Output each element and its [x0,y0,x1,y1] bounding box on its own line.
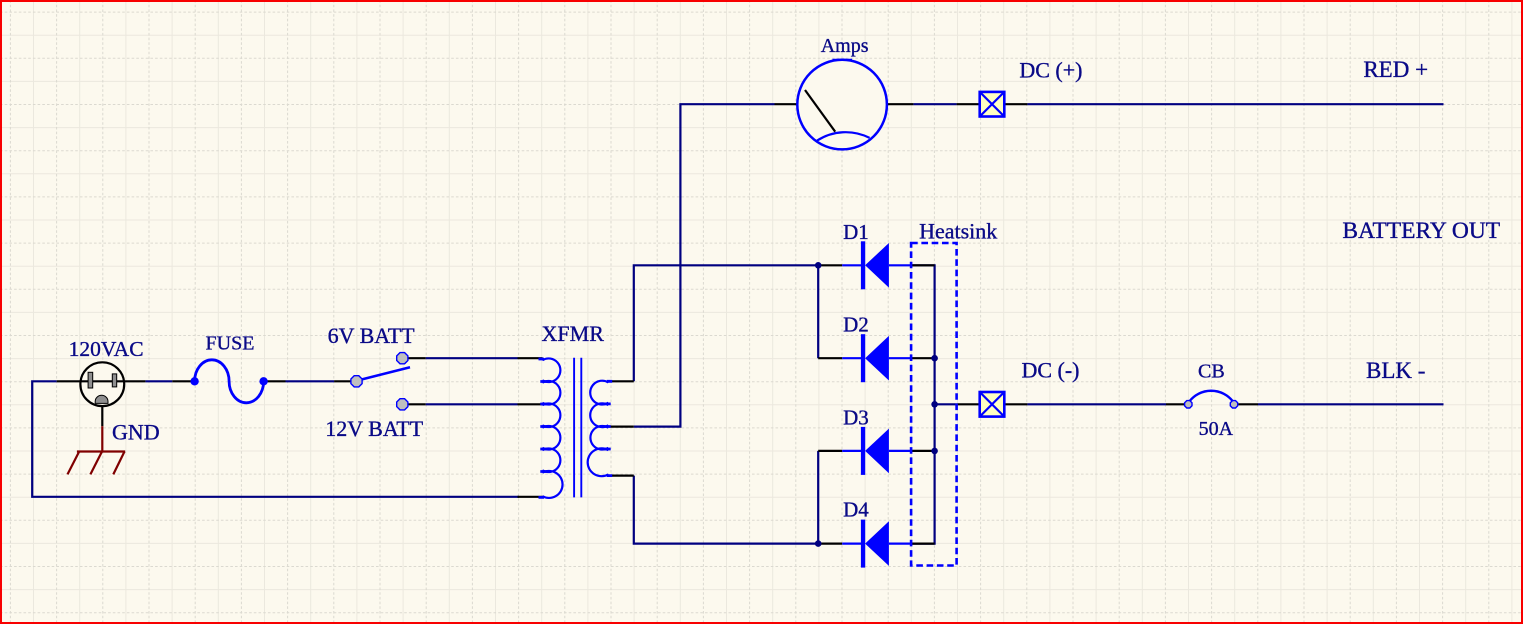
fuse right dot [259,377,267,385]
ground symbol horizontal bar [77,450,125,452]
svg-text:D4: D4 [843,498,869,522]
wire secondary bottom tap riser to D3/D4 anode feed [634,476,818,544]
pin transformer primary top [518,357,543,359]
diode D2 anode triangle [865,336,889,381]
pin transformer primary bottom [518,496,543,498]
connector DC minus (socket symbol) [980,392,1005,417]
wire 6V BATT switch throw to transformer primary top [426,357,518,359]
pin diode D2 anode [818,357,842,359]
transformer core [573,358,575,498]
ground symbol slash 1 [68,452,80,475]
ground symbol slash 3 [113,452,124,475]
pin diode D1 anode [818,264,842,266]
wire DC plus connector to RED + terminal [1027,103,1443,105]
wire ammeter to DC plus connector [913,103,956,105]
pin diode D2 cathode [912,357,935,359]
svg-text:XFMR: XFMR [542,321,605,346]
switch 12V throw pad [397,399,408,410]
pin DC plus connector right [1004,103,1027,105]
svg-text:6V BATT: 6V BATT [328,323,416,348]
pin DC plus connector left [957,103,980,105]
ground symbol slash 2 [90,452,102,475]
wire cathode bus through heatsink [912,265,935,543]
diode D4 anode triangle [865,521,889,566]
wire fuse to switch common [286,380,335,382]
diode D4 lead-out [889,542,912,544]
diode D2 lead-in [842,357,863,359]
svg-text:D2: D2 [843,313,869,337]
switch common pad [351,376,362,387]
AC plug 120VAC body [80,362,124,406]
transformer primary junction ticks [539,359,550,497]
diode D1 lead-in [842,264,863,266]
pin switch 6V throw [408,357,426,359]
pin ammeter left [775,103,798,105]
wire DC minus output from cathode bus [935,403,957,405]
pin diode D4 anode [818,542,842,544]
pin switch common [334,380,351,382]
svg-text:50A: 50A [1199,418,1234,440]
connector DC plus (socket symbol) [980,92,1005,117]
pin plug right / line through plug body [81,380,145,382]
pin DC minus connector right [1004,403,1027,405]
wire secondary top tap riser to D1/D2 anode feed [634,265,818,381]
AC plug line through body [81,380,124,382]
circuit breaker left pad [1185,401,1192,408]
wire AC hot: plug to left rail, down and along bottom to transformer [32,381,519,497]
pin switch 12V throw [408,403,426,405]
diode D3 anode triangle [865,429,889,474]
AC plug left prong [88,372,93,388]
svg-text:BLK -: BLK - [1366,358,1425,383]
junction cathode bus at D3 [931,448,938,455]
wire CB to BLK - terminal [1258,403,1444,405]
diode D1 cathode bar [861,241,865,289]
pin transformer secondary bottom [609,475,634,477]
diode D4 lead-in [842,542,863,544]
transformer secondary junction ticks [601,381,612,475]
ammeter needle [805,90,835,132]
diode D3 lead-out [889,450,912,452]
wire DC minus connector to CB [1027,403,1166,405]
pin CB left [1166,403,1184,405]
switch 6V throw pad [397,353,408,364]
ground wire (dark red) [101,426,103,451]
junction cathode bus at D2 [931,355,938,362]
heatsink dashed outline [911,243,957,566]
pin diode D3 cathode [912,450,935,452]
ammeter body circle [797,60,887,150]
diode D2 lead-out [889,357,912,359]
pin transformer secondary centre tap [609,426,634,428]
transformer primary winding [542,358,562,498]
ammeter scale arc [817,132,870,140]
svg-text:12V BATT: 12V BATT [325,416,424,441]
diode D2 cathode bar [861,334,865,382]
junction D4 anode feed [815,540,822,547]
pin DC minus connector left [957,403,980,405]
fuse body curve [195,360,264,403]
wire anode bus D3-D4 [817,451,819,544]
svg-text:Heatsink: Heatsink [919,219,997,244]
wire anode bus D1-D2 [817,265,819,358]
diode D3 lead-in [842,450,863,452]
diode D1 anode triangle [865,243,889,288]
svg-text:D3: D3 [843,405,869,429]
AC plug ground pin dome [95,395,108,403]
AC plug right prong [112,374,116,387]
svg-text:Amps: Amps [821,35,869,57]
ammeter top chord [833,59,853,61]
svg-text:BATTERY OUT: BATTERY OUT [1342,218,1500,244]
junction cathode bus at DC minus output [931,401,938,408]
circuit breaker right pad [1230,401,1237,408]
pin diode D1 cathode [912,264,935,266]
pin transformer primary tap [518,403,543,405]
pin ammeter right [887,103,914,105]
svg-text:RED +: RED + [1363,57,1428,82]
wire centre tap to ammeter (riser and top run) [634,104,775,426]
diode D3 cathode bar [861,427,865,475]
pin fuse left [172,380,194,382]
svg-text:D1: D1 [843,220,869,244]
pin plug left [57,380,81,382]
diode D1 lead-out [889,264,912,266]
pin diode D4 cathode [912,542,935,544]
pin CB right [1238,403,1258,405]
svg-text:DC (-): DC (-) [1021,358,1079,383]
pin fuse right [264,380,286,382]
svg-text:FUSE: FUSE [206,333,255,355]
svg-text:GND: GND [112,420,160,445]
fuse left dot [190,377,198,385]
svg-text:DC (+): DC (+) [1019,57,1082,82]
switch blade [361,367,410,379]
wire plug to fuse [145,380,172,382]
circuit breaker arc [1190,391,1233,402]
pin transformer secondary top [609,380,634,382]
transformer secondary winding [588,381,609,477]
svg-text:120VAC: 120VAC [69,337,144,361]
AC plug ground lead black part [101,406,103,426]
junction D1 anode feed [815,262,822,269]
pin diode D3 anode [818,450,842,452]
diode D4 cathode bar [861,520,865,568]
wire 12V BATT switch throw to transformer primary tap [426,403,518,405]
svg-text:CB: CB [1198,361,1225,383]
